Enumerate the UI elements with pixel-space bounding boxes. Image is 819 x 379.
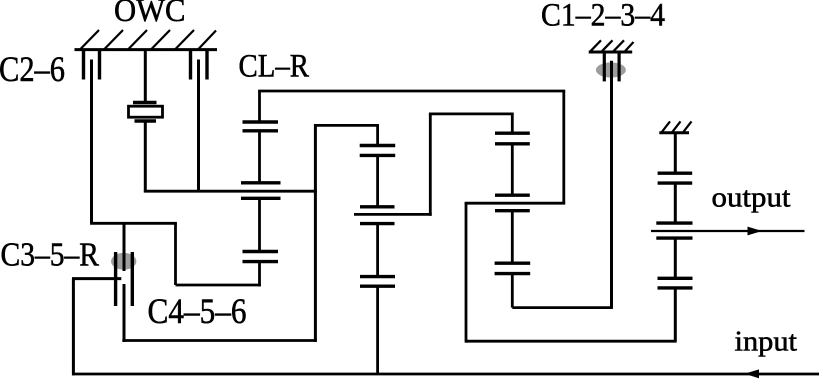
- gear column sun shaft: [495, 114, 613, 308]
- brake C2-6 plates: [84, 51, 100, 80]
- clutch C3-5-R: [116, 223, 133, 342]
- wire C2-6 drum path: [90, 223, 261, 285]
- svg-text:output: output: [712, 182, 791, 214]
- ground transmission housing: [75, 30, 218, 50]
- wire input feed: [72, 279, 121, 376]
- bearing shade at clutch C3-5-R: [111, 253, 136, 270]
- gear column planet shaft: [360, 125, 396, 375]
- brake C2-6 hub plate: [90, 60, 93, 224]
- wire input shaft: [72, 373, 819, 376]
- wire stub into planet clutch: [354, 213, 432, 216]
- svg-text:OWC: OWC: [114, 0, 186, 29]
- wire output shaft: [651, 230, 805, 232]
- wire OWC carrier: [144, 190, 317, 193]
- wire ring gear shaft: [122, 124, 379, 342]
- brake OWC hub plate: [197, 60, 200, 193]
- arrow output: [748, 227, 763, 236]
- arrow input: [745, 369, 760, 378]
- brake C1-2-3-4: [589, 40, 634, 81]
- svg-text:C1–2–3–4: C1–2–3–4: [541, 0, 665, 33]
- svg-text:C4–5–6: C4–5–6: [148, 291, 247, 331]
- wire CL-R top: [258, 90, 565, 93]
- clutch CL-R input drum column: [241, 91, 281, 286]
- svg-text:input: input: [735, 326, 798, 358]
- gear column output shaft: [656, 133, 692, 341]
- svg-text:C2–6: C2–6: [0, 49, 65, 89]
- wire riser: [429, 114, 514, 216]
- shaft C1-2-3-4 hub: [610, 61, 613, 308]
- svg-text:C3–5–R: C3–5–R: [1, 236, 100, 273]
- ground rear housing: [659, 121, 691, 132]
- one-way clutch OWC: [129, 50, 163, 193]
- svg-text:CL–R: CL–R: [239, 48, 310, 84]
- wire clutch feed: [465, 91, 677, 343]
- brake OWC outer plates: [191, 51, 208, 80]
- bearing shade at brake C1-2-3-4: [596, 62, 626, 77]
